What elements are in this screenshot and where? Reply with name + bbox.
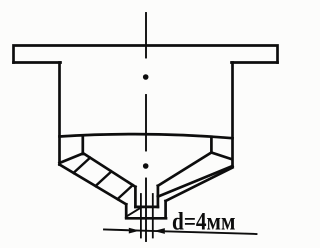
right nozzle inner vertical (157, 186, 160, 207)
right outer step vertical (164, 201, 167, 217)
arrow right (154, 228, 165, 234)
left outer cone edge (60, 165, 127, 205)
centerline dot 2 (143, 163, 149, 169)
hatch 1 (74, 158, 91, 173)
nozzle tip bottom H2 (126, 217, 166, 220)
centerline (145, 13, 147, 241)
left inner cone edge (83, 153, 136, 187)
right outer cone edge (158, 166, 233, 197)
flange top plate (14, 46, 278, 63)
left nozzle inner vertical (134, 187, 137, 207)
centerline dot 1 (143, 74, 149, 80)
left outer step vertical (125, 204, 128, 217)
right outer cone lower edge (166, 168, 233, 202)
right band end (211, 153, 231, 160)
dimension line (104, 230, 257, 235)
rim arc (60, 134, 233, 138)
hatch 3 (118, 185, 133, 199)
svg-text:d=4мм: d=4мм (172, 209, 236, 236)
left rim vertical (81, 136, 84, 155)
left tip chamfer (127, 208, 141, 217)
bore line right (152, 194, 154, 238)
nozzle bottom face H1 (135, 206, 158, 209)
right rim vertical (210, 137, 213, 153)
wire left wall (58, 63, 61, 165)
left band end (60, 154, 83, 164)
arrow left (129, 228, 140, 234)
hatch 2 (96, 171, 112, 186)
bore line left (140, 194, 142, 238)
wire right wall (231, 63, 234, 167)
right inner cone edge (158, 153, 212, 186)
